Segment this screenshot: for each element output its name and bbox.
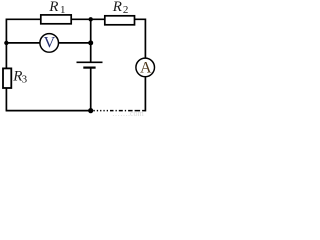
wire bottom rail dashed xyxy=(94,110,146,112)
node: voltmeter junction on left rail xyxy=(4,41,8,45)
wire right rail upper xyxy=(144,19,146,59)
resistor R1 xyxy=(41,15,71,24)
svg-text:A: A xyxy=(140,60,152,77)
wire bottom rail solid xyxy=(6,110,91,112)
node: bottom junction of center wire xyxy=(88,108,93,113)
svg-text:1: 1 xyxy=(60,4,66,16)
wire voltmeter branch xyxy=(6,42,90,44)
svg-text:R: R xyxy=(48,0,58,15)
svg-text:V: V xyxy=(44,34,56,51)
resistor R2 xyxy=(105,16,135,25)
battery cell long plate xyxy=(77,61,103,63)
voltmeter U (circle) xyxy=(40,34,59,53)
svg-text:2: 2 xyxy=(123,4,128,16)
battery cell short plate xyxy=(83,66,95,68)
ammeter (circle) xyxy=(136,58,155,77)
background xyxy=(0,0,161,117)
wire right rail lower xyxy=(144,77,146,112)
node: voltmeter junction on center wire xyxy=(88,40,93,45)
svg-text:…….com: …….com xyxy=(112,109,145,117)
wire top rail xyxy=(6,18,145,20)
wire left rail xyxy=(5,19,7,111)
svg-text:R: R xyxy=(112,0,122,15)
resistor R3 xyxy=(3,68,11,88)
wire center vertical lower (battery to bottom) xyxy=(90,68,92,111)
node: top junction of center wire xyxy=(89,17,93,21)
svg-text:3: 3 xyxy=(22,74,28,86)
wire center vertical upper (to battery) xyxy=(90,19,92,62)
